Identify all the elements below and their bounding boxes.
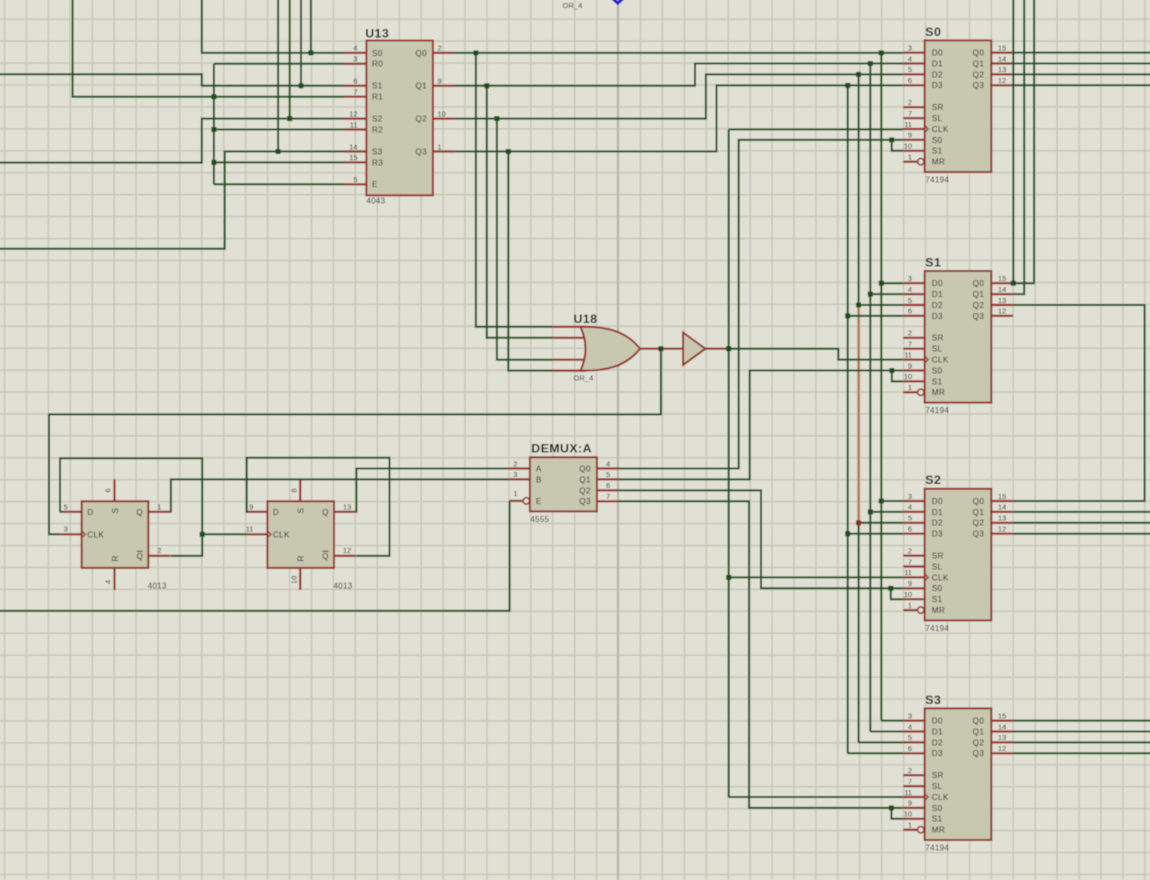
U_FF1 pins [60,479,170,590]
svg-text:A: A [536,464,542,473]
junction clock trunk at buffer output [726,346,731,351]
wire clock trunk to S0.CLK [729,128,904,130]
svg-text:10: 10 [904,372,912,381]
svg-text:Q0: Q0 [973,279,985,288]
buffer output pin [705,348,728,350]
svg-text:2: 2 [908,329,912,338]
svg-text:Q1: Q1 [973,508,985,517]
wire net S1-set: from left edge with jog to U13 pin6 [0,74,345,86]
svg-text:6: 6 [908,525,912,534]
wire DEMUX.Q0 up to S0 mode pins [619,140,904,469]
junction U13 pin14 row [276,149,281,154]
S1 pin names [932,279,985,397]
svg-text:6: 6 [353,77,357,86]
svg-text:S1: S1 [932,815,943,824]
svg-text:D0: D0 [932,717,943,726]
S3 pins [903,721,1013,833]
svg-text:11: 11 [904,788,912,797]
svg-text:74194: 74194 [925,175,949,184]
svg-text:4013: 4013 [148,582,167,591]
junction OR output node [658,346,663,351]
wire DEMUX enable down to long bottom rail [0,501,510,611]
wire net Q3: U13 pin1 with jog up to S0.D3 [455,85,904,151]
svg-text:9: 9 [438,77,442,86]
svg-text:10: 10 [904,810,912,819]
buffer input pin [661,348,683,350]
junction S3 mode pin tap [889,805,894,810]
svg-text:Q0: Q0 [579,464,591,473]
wire S3.D1 tap corner [870,731,903,733]
svg-text:Q2: Q2 [973,738,985,747]
svg-text:4043: 4043 [366,196,385,205]
wire S2.D1 tap [870,511,903,513]
svg-text:S1: S1 [925,255,941,269]
label OR_4 of cut-off gate at top [563,1,583,10]
svg-text:D0: D0 [932,497,943,506]
svg-text:Q3: Q3 [415,147,427,156]
wire S3.Q3 to right edge [1013,752,1150,754]
junction S1.D0 [879,281,884,286]
svg-text:5: 5 [908,514,912,523]
junction S1.D2 (red wire top) [856,303,861,308]
junction U13 pin6 row [299,83,304,88]
wire clock trunk to S3.CLK [729,796,904,798]
svg-text:4: 4 [908,54,912,63]
svg-text:13: 13 [998,65,1006,74]
svg-text:D: D [273,508,279,517]
svg-text:7: 7 [908,109,912,118]
svg-text:MR: MR [932,158,945,167]
junction S0 mode pin tap [889,137,894,142]
svg-text:U18: U18 [574,312,598,326]
wire S3.D0 tap corner [881,720,903,722]
wire net reset: branch to U13 pin5 (E) [214,183,345,185]
svg-text:S0: S0 [932,136,943,145]
wire net reset bus vertical at U13 left [213,64,215,185]
wire net reset: vertical from top to U13 pin7 row [73,0,345,97]
wire net Q0: D0 distribution vertical [880,53,882,721]
or-gate U18 body [581,327,641,371]
wire clock trunk to S2.CLK [729,576,904,578]
svg-text:1: 1 [513,489,517,498]
svg-text:9: 9 [908,579,912,588]
svg-text:2: 2 [908,766,912,775]
wire vertical from top down to S1.Q1 [1013,0,1024,294]
svg-text:S0: S0 [372,49,383,58]
wire net Q1: D1 distribution vertical [869,64,871,732]
svg-text:D1: D1 [932,508,943,517]
wire net reset: branch to U13 pin15 [214,161,345,163]
junction reset bus at pin7 row [211,94,216,99]
svg-text:2: 2 [438,44,442,53]
svg-text:1: 1 [908,383,912,392]
svg-text:MR: MR [932,826,945,835]
svg-text:10: 10 [438,109,446,118]
svg-text:15: 15 [998,492,1006,501]
wire S1.Q2 right and down to S2.Q0 [1013,305,1145,501]
or-gate U18 input stubs [553,327,586,371]
wire FF2 Q up to DEMUX.A [356,469,508,512]
wire net S0-set: branch vertical from top [310,0,312,53]
svg-text:D3: D3 [932,81,943,90]
svg-text:6: 6 [908,307,912,316]
svg-text:SL: SL [932,345,943,354]
wire S0.Q1 to right edge [1013,63,1150,65]
IC S2 (74194) body [925,489,992,621]
wire S3.Q1 to right edge [1013,731,1150,733]
svg-text:4: 4 [606,459,610,468]
wire net S3-set: branch vertical from top [277,0,279,152]
svg-text:CLK: CLK [932,356,949,365]
wire DEMUX.Q1 up to S1 mode pins [619,371,904,480]
wire S1.D3 tap [848,315,904,317]
svg-text:7: 7 [908,340,912,349]
junction S1.Q0 node [1011,281,1016,286]
svg-text:CLK: CLK [932,793,949,802]
svg-text:2: 2 [908,546,912,555]
svg-text:S0: S0 [925,25,941,39]
wire net reset: branch to U13 pin3 [214,63,345,65]
svg-text:12: 12 [998,744,1006,753]
svg-text:13: 13 [998,733,1006,742]
junction Q0 at OR input tap [473,50,478,55]
svg-text:S1: S1 [372,82,383,91]
svg-text:MR: MR [932,388,945,397]
DEMUX:A pin numbers [513,459,610,501]
wire FF1 Qbar to FF2 clock [202,533,245,535]
svg-text:9: 9 [908,799,912,808]
S3 pin numbers [904,711,1006,829]
svg-text:S1: S1 [932,147,943,156]
svg-text:3: 3 [353,55,357,64]
wire net Q3: drop to OR input 4 [508,152,552,371]
svg-text:1: 1 [157,503,161,512]
svg-text:CLK: CLK [932,573,949,582]
junction reset bus at pin15 row [211,160,216,165]
svg-text:4: 4 [353,44,357,53]
svg-text:74194: 74194 [925,843,949,852]
svg-text:1: 1 [438,142,442,151]
svg-text:Q3: Q3 [973,749,985,758]
svg-text:Q0: Q0 [973,717,985,726]
IC S1 (74194) body [925,271,992,403]
label DEMUX:A [531,442,592,456]
wire S1 mode jog S0pin to S1pin [892,371,903,382]
svg-text:E: E [372,180,378,189]
junction S1.D1 [868,292,873,297]
svg-text:Q1: Q1 [973,727,985,736]
label U18 [574,312,598,326]
junction S2.D1 [868,509,873,514]
svg-text:Q: Q [322,552,328,561]
svg-text:14: 14 [349,142,357,151]
IC S3 (74194) body [925,708,992,840]
svg-text:9: 9 [908,361,912,370]
svg-text:6: 6 [104,488,113,492]
svg-text:6: 6 [908,76,912,85]
svg-text:3: 3 [908,43,912,52]
wire S0.Q2 to right edge [1013,73,1150,75]
wire S2.Q3 to right edge [1013,533,1150,535]
svg-text:R2: R2 [372,125,383,134]
junction Q0 at D0 bus tap [879,50,884,55]
wire FF1 Q up to DEMUX.B [170,479,508,511]
svg-text:R: R [111,556,120,562]
svg-text:OR_4: OR_4 [563,1,583,10]
S3 pin names [932,717,985,835]
svg-text:3: 3 [908,274,912,283]
svg-text:13: 13 [998,514,1006,523]
blue terminal arrow (cut off at top) [612,0,623,5]
IC S0 (74194) body [925,40,992,172]
svg-text:13: 13 [998,296,1006,305]
svg-text:D3: D3 [932,749,943,758]
wire S0.Q3 to right edge [1013,84,1150,86]
wire buffer output jog to S1.CLK [729,349,904,360]
buffer body [683,333,705,365]
svg-text:S1: S1 [932,377,943,386]
wire net reset: branch to U13 pin11 [214,129,345,131]
U13 pins [345,53,455,184]
label S3 [925,693,941,707]
wire net Q2: U13 pin10 with jog up to S0.D2 [455,74,904,118]
wire S1.D2 tap [859,304,904,306]
wire S2.Q1 to right edge [1013,511,1150,513]
svg-text:11: 11 [904,350,912,359]
svg-text:3: 3 [513,470,517,479]
S2 pin numbers [904,492,1006,610]
wire OR output down-left to FF1 clock [49,349,661,535]
wire S3.D2 tap corner [859,741,904,743]
DEMUX:A pin names [536,464,591,506]
svg-text:Q2: Q2 [973,301,985,310]
wire net Q0: drop to OR input 1 [476,53,553,327]
svg-text:B: B [536,475,542,484]
wire net S2-set: branch vertical from top [289,0,291,119]
wire S0 mode jog S0pin to S1pin [892,140,904,151]
svg-text:2: 2 [513,459,517,468]
svg-text:2: 2 [908,98,912,107]
value 74194 of S2 [925,624,949,633]
svg-text:S3: S3 [372,147,383,156]
value 4013 of U_FF1 [148,582,167,591]
svg-text:Q1: Q1 [415,82,427,91]
svg-text:MR: MR [932,606,945,615]
svg-text:D2: D2 [932,301,943,310]
wire net Q2: D2 distribution vertical upper (green) [858,74,860,305]
wire net Q0: U13 pin2 to S0.D0 [455,52,904,54]
svg-text:3: 3 [908,711,912,720]
junction S2 mode pin tap [888,586,893,591]
svg-text:7: 7 [908,557,912,566]
svg-text:D0: D0 [932,49,943,58]
wire S3 mode jog S0pin to S1pin [891,808,903,819]
svg-text:Q3: Q3 [579,497,591,506]
svg-text:3: 3 [908,492,912,501]
junction S2.D0 [879,499,884,504]
svg-text:U13: U13 [365,26,389,40]
svg-text:11: 11 [904,568,912,577]
svg-text:D1: D1 [932,727,943,736]
svg-text:1: 1 [908,601,912,610]
junction Q1 at D1 bus tap [868,61,873,66]
value 4555 [530,515,549,524]
svg-text:SR: SR [932,103,944,112]
wire net Q2: D2 distribution middle segment (red colored wire) [857,305,859,523]
S0 pin names [932,49,985,167]
svg-text:CLK: CLK [273,531,290,540]
svg-text:Q0: Q0 [973,49,985,58]
svg-text:S0: S0 [932,366,943,375]
DEMUX:A pins [508,469,619,505]
junction S1.D3 [845,313,850,318]
svg-text:Q2: Q2 [415,115,427,124]
svg-text:9: 9 [249,503,253,512]
wire FF2 feedback Qbar to D [246,458,390,556]
svg-text:5: 5 [606,470,610,479]
svg-text:12: 12 [998,307,1006,316]
or-gate U18 output pin [640,348,661,350]
svg-text:10: 10 [904,142,912,151]
wire net S1-set: branch vertical from top [300,0,302,86]
svg-text:D2: D2 [932,738,943,747]
junction S2.D3 [845,531,850,536]
value OR_4 [574,374,594,383]
U_FF1 pin numbers [64,488,162,584]
svg-text:7: 7 [908,777,912,786]
svg-text:11: 11 [904,120,912,129]
label S2 [925,473,941,487]
junction U13 pin4 row [308,50,313,55]
svg-text:S: S [297,508,306,514]
svg-text:Q: Q [137,552,143,561]
junction Q3 at D3 bus tap [845,83,850,88]
value 74194 of S0 [925,175,949,184]
svg-text:Q: Q [322,508,328,517]
junction Q2 at OR input tap [494,116,499,121]
svg-text:5: 5 [908,296,912,305]
svg-text:DEMUX:A: DEMUX:A [531,442,592,456]
svg-text:1: 1 [908,821,912,830]
svg-text:S0: S0 [932,804,943,813]
flip-flop U_FF2 (4013) body [267,501,334,568]
U_FF2 pin names [273,508,329,562]
svg-text:12: 12 [343,546,351,555]
svg-text:5: 5 [353,175,357,184]
svg-text:6: 6 [606,481,610,490]
svg-text:4: 4 [104,580,113,584]
svg-text:Q0: Q0 [973,497,985,506]
wire net Q1: U13 pin9 with jog up to S0.D1 [455,64,904,86]
svg-text:Q1: Q1 [973,290,985,299]
wire S2.Q2 to right edge [1013,522,1150,524]
wire S2.D0 tap [881,500,903,502]
wire S2.D3 tap [848,533,904,535]
svg-text:10: 10 [289,576,298,584]
svg-text:74194: 74194 [925,624,949,633]
svg-text:4: 4 [908,285,912,294]
wire net S0-set: vertical from top to U13 pin4 [202,0,345,53]
svg-text:14: 14 [998,722,1006,731]
svg-text:SL: SL [932,782,943,791]
svg-text:D3: D3 [932,530,943,539]
wire S1.D1 tap [870,293,903,295]
wire S3.D3 tap corner [848,752,904,754]
svg-text:OR_4: OR_4 [574,374,594,383]
label S0 [925,25,941,39]
svg-text:5: 5 [908,65,912,74]
svg-text:D: D [87,508,93,517]
svg-text:2: 2 [157,546,161,555]
wire S3.Q2 to right edge [1013,741,1150,743]
svg-text:5: 5 [908,733,912,742]
junction U13 pin12 row [287,116,292,121]
svg-text:S2: S2 [925,473,941,487]
U_FF2 pins [246,479,356,590]
wire S2.D2 tap [859,522,904,524]
S2 pin names [932,497,985,615]
flip-flop U_FF1 (4013) body [82,501,149,568]
svg-text:SR: SR [932,771,944,780]
label S1 [925,255,941,269]
wire net S3-set: from left edge up to U13 pin14 [0,152,345,249]
svg-text:Q2: Q2 [973,70,985,79]
junction reset bus at pin11 row [211,127,216,132]
svg-text:Q2: Q2 [973,519,985,528]
svg-text:SL: SL [932,114,943,123]
svg-text:Q1: Q1 [579,475,591,484]
svg-text:14: 14 [998,503,1006,512]
svg-text:S3: S3 [925,693,941,707]
svg-text:Q1: Q1 [973,59,985,68]
svg-text:5: 5 [64,503,68,512]
svg-text:12: 12 [998,76,1006,85]
junction Q3 at OR input tap [506,149,511,154]
U_FF1 pin names [87,508,143,562]
svg-text:74194: 74194 [925,406,949,415]
svg-text:15: 15 [998,43,1006,52]
svg-text:4013: 4013 [334,582,353,591]
svg-text:D1: D1 [932,290,943,299]
wire S2 mode jog S0pin to S1pin [891,588,904,599]
junction clock trunk at S2.CLK [726,575,731,580]
U13 pin numbers [349,44,445,184]
wire S3.Q0 to right edge [1013,720,1150,722]
svg-text:13: 13 [343,503,351,512]
svg-text:CLK: CLK [932,125,949,134]
svg-text:1: 1 [908,153,912,162]
svg-text:D2: D2 [932,519,943,528]
svg-text:11: 11 [350,120,358,129]
wire S1.D0 tap [881,282,903,284]
svg-text:4: 4 [908,503,912,512]
svg-text:S: S [111,508,120,514]
wire net Q3: D3 distribution vertical [847,85,849,753]
svg-text:14: 14 [998,285,1006,294]
svg-text:10: 10 [904,590,912,599]
svg-text:Q3: Q3 [973,81,985,90]
junction Q2 at D2 bus tap [856,72,861,77]
U_FF2 pin numbers [246,488,352,584]
junction S2.D2 (red wire bottom) [856,520,861,525]
S1 pin numbers [904,274,1006,392]
svg-text:Q: Q [136,508,142,517]
S0 pins [903,53,1013,165]
svg-text:15: 15 [998,274,1006,283]
wire net Q2: drop to OR input 3 [497,119,553,360]
junction FF1 feedback at FF2 clock row [200,532,205,537]
svg-text:R1: R1 [372,93,383,102]
